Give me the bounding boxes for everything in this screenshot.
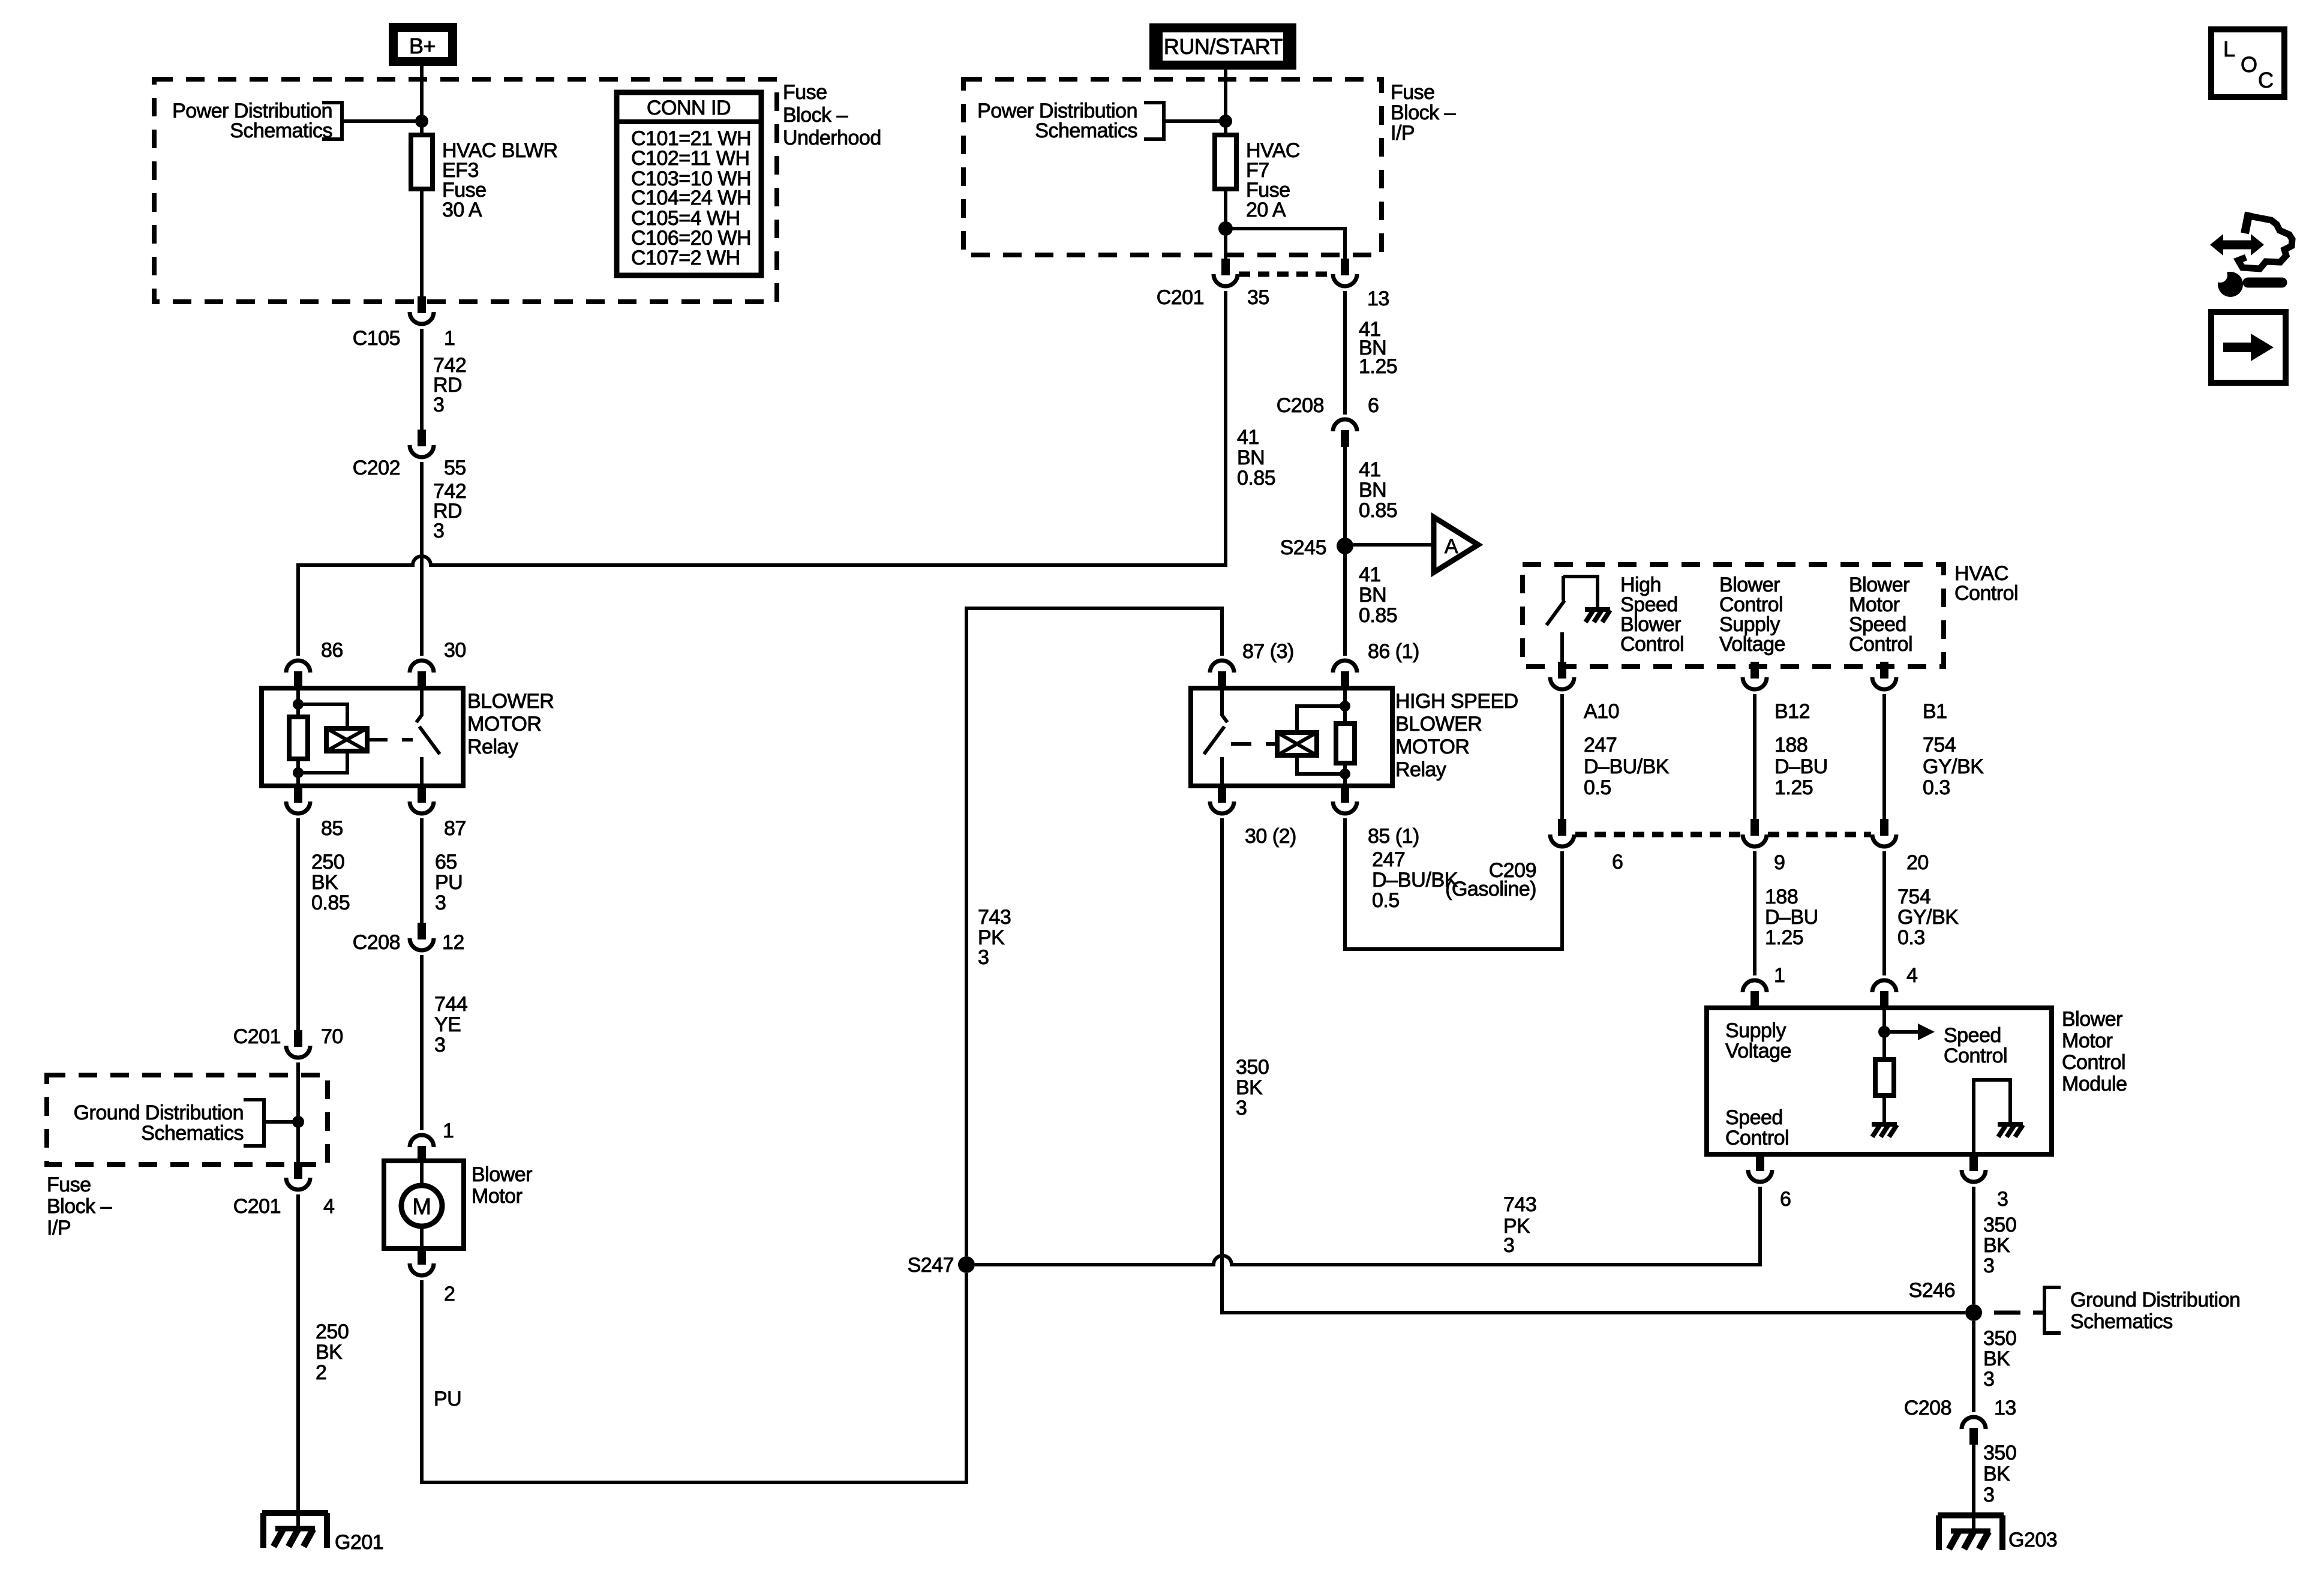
svg-text:1: 1 — [1774, 964, 1785, 987]
svg-text:S246: S246 — [1909, 1279, 1955, 1302]
svg-text:I/P: I/P — [47, 1217, 71, 1239]
svg-text:Relay: Relay — [467, 736, 518, 758]
wire B+ to fuse EF3 — [420, 66, 424, 135]
svg-text:C208: C208 — [1904, 1397, 1951, 1419]
svg-text:30 A: 30 A — [442, 199, 482, 221]
wire 754 GY/BK 0.3 B1 to C209 — [1882, 694, 1886, 819]
svg-text:250: 250 — [311, 851, 344, 873]
svg-text:BLOWER: BLOWER — [467, 690, 554, 713]
junction dot below fuse — [1218, 221, 1233, 236]
svg-text:0.85: 0.85 — [311, 891, 350, 914]
tap wire — [1164, 119, 1226, 123]
high speed relay box — [1191, 688, 1392, 786]
connector C208 pin 6 — [1333, 419, 1357, 447]
motor pin 2 connector — [410, 1248, 434, 1275]
switch — [1222, 688, 1227, 722]
wire 350 BK 3 to G203 — [1972, 1443, 1975, 1531]
svg-text:3: 3 — [1983, 1368, 1994, 1391]
svg-text:PU: PU — [434, 1388, 461, 1410]
wire RUN/START to fuse F7 — [1224, 70, 1227, 135]
wire 250 BK 0.85 — [296, 818, 300, 1030]
svg-text:Control: Control — [1620, 633, 1684, 656]
svg-text:I/P: I/P — [1391, 122, 1415, 145]
svg-text:0.3: 0.3 — [1923, 776, 1950, 799]
svg-text:30: 30 — [444, 639, 466, 662]
svg-text:BN: BN — [1359, 479, 1386, 502]
forward arrow box — [2211, 312, 2286, 383]
svg-text:6: 6 — [1368, 394, 1379, 417]
svg-text:744: 744 — [434, 993, 467, 1016]
svg-text:3: 3 — [435, 891, 446, 914]
svg-text:BK: BK — [1983, 1347, 2010, 1370]
svg-text:BK: BK — [316, 1341, 343, 1364]
wire 65 PU 3 — [420, 818, 424, 923]
coil actuator dashed line — [1231, 742, 1277, 746]
svg-text:1.25: 1.25 — [1359, 355, 1397, 378]
relay pin 87(3) connector — [1210, 661, 1234, 688]
coil actuator dashed line — [367, 738, 413, 742]
svg-text:L: L — [2223, 37, 2235, 61]
svg-text:247: 247 — [1372, 848, 1405, 871]
bracket to B+ wire — [322, 103, 342, 139]
svg-text:87 (3): 87 (3) — [1242, 640, 1294, 663]
svg-text:350: 350 — [1983, 1442, 2016, 1464]
connector C208 pin 12 — [410, 923, 434, 950]
svg-text:YE: YE — [434, 1013, 461, 1036]
car diagnostic icon — [2210, 212, 2292, 297]
svg-text:13: 13 — [1367, 287, 1389, 310]
svg-text:0.85: 0.85 — [1237, 467, 1275, 490]
wire 350 BK 3 from 30(2) to S246 — [1222, 818, 1965, 1313]
svg-text:Module: Module — [2062, 1073, 2127, 1095]
svg-text:30 (2): 30 (2) — [1245, 825, 1296, 848]
svg-text:BK: BK — [311, 871, 338, 894]
module internal ground (right) — [1998, 1124, 2023, 1137]
svg-text:Motor: Motor — [472, 1185, 523, 1208]
svg-text:D–BU: D–BU — [1774, 755, 1828, 778]
LOC box — [2211, 29, 2284, 97]
junction dot — [292, 1116, 304, 1128]
svg-text:Voltage: Voltage — [1725, 1040, 1791, 1062]
svg-text:20: 20 — [1906, 851, 1929, 874]
module internal resistor — [1875, 1059, 1894, 1095]
svg-text:250: 250 — [316, 1320, 349, 1343]
resistor — [289, 717, 308, 759]
relay pin 86(1) connector — [1333, 661, 1357, 688]
svg-text:G203: G203 — [2008, 1529, 2057, 1551]
svg-text:35: 35 — [1247, 286, 1269, 309]
svg-text:Schematics: Schematics — [1035, 119, 1137, 142]
coil parallel links — [298, 704, 347, 728]
relay switch — [416, 688, 422, 722]
wire fuse EF3 to connector C105 — [420, 189, 424, 296]
wire 742 RD 3 — [420, 329, 424, 430]
svg-text:13: 13 — [1994, 1397, 2016, 1419]
svg-text:1: 1 — [443, 1119, 454, 1142]
relay pin 85 connector — [286, 786, 310, 813]
bracket — [244, 1100, 264, 1146]
svg-text:M: M — [412, 1194, 431, 1220]
fuse block underhood dashed box — [154, 79, 777, 302]
svg-text:85: 85 — [321, 817, 343, 840]
svg-text:Blower: Blower — [472, 1163, 532, 1186]
junction dots — [293, 699, 304, 710]
svg-text:3: 3 — [434, 1034, 445, 1056]
connector C209 pin 20 — [1872, 819, 1896, 846]
svg-text:D–BU/BK: D–BU/BK — [1584, 755, 1670, 778]
C201 connector dashed link — [1239, 272, 1333, 277]
svg-text:BLOWER: BLOWER — [1395, 713, 1482, 736]
RUN/START power symbol box — [1149, 23, 1296, 70]
svg-text:87: 87 — [444, 817, 466, 840]
module pin 1 connector — [1743, 980, 1767, 1008]
svg-text:3: 3 — [1997, 1188, 2008, 1211]
junction dot — [1219, 115, 1232, 128]
svg-text:754: 754 — [1897, 885, 1930, 908]
svg-text:B1: B1 — [1923, 700, 1947, 723]
connector C201 pin 13 — [1333, 259, 1357, 286]
svg-text:247: 247 — [1584, 734, 1617, 757]
svg-text:2: 2 — [316, 1361, 326, 1384]
svg-text:Motor: Motor — [2062, 1029, 2113, 1052]
C209 dashed link — [1575, 832, 1871, 837]
fuse F7 — [1215, 135, 1236, 189]
svg-text:3: 3 — [978, 946, 989, 969]
svg-text:BN: BN — [1237, 446, 1265, 469]
svg-text:Control: Control — [1944, 1044, 2007, 1067]
wire 350 BK 3 pin 3 to S246 — [1972, 1187, 1975, 1304]
connector C201 pin 35 — [1214, 259, 1238, 286]
bracket to RUN/START wire — [1144, 103, 1164, 139]
svg-text:Block –: Block – — [1391, 101, 1456, 124]
svg-text:G201: G201 — [335, 1531, 383, 1554]
junction dot on B+ wire — [415, 115, 428, 128]
splice S247 — [958, 1256, 975, 1273]
ground G203 — [1938, 1515, 2004, 1550]
wire through fuse block — [296, 1062, 300, 1162]
svg-text:Ground Distribution: Ground Distribution — [2070, 1289, 2240, 1311]
coil parallel links — [1297, 706, 1345, 733]
svg-text:C201: C201 — [233, 1025, 281, 1048]
pin B12 connector — [1743, 662, 1767, 689]
svg-text:C201: C201 — [233, 1195, 281, 1218]
wire 744 YE 3 — [420, 955, 424, 1130]
wire C201-13 to C208-6 — [1343, 291, 1347, 415]
wire C201-35 down — [1224, 291, 1227, 564]
svg-text:6: 6 — [1612, 851, 1623, 873]
svg-text:3: 3 — [1983, 1254, 1994, 1277]
relay box — [262, 688, 463, 786]
wire fuse F7 down — [1224, 189, 1227, 259]
relay pin 30 connector — [410, 661, 434, 688]
svg-text:Supply: Supply — [1725, 1019, 1786, 1042]
wire 188 D-BU 1.25 to module pin 1 — [1753, 851, 1756, 975]
svg-text:Schematics: Schematics — [141, 1122, 244, 1145]
svg-text:4: 4 — [1906, 964, 1917, 987]
svg-text:Control: Control — [1849, 633, 1912, 656]
callout wire to A triangle — [1353, 543, 1434, 547]
svg-text:70: 70 — [321, 1025, 343, 1048]
svg-text:C104=24 WH: C104=24 WH — [631, 187, 751, 209]
pin A10 connector — [1550, 662, 1574, 689]
svg-text:S245: S245 — [1280, 536, 1326, 559]
long horizontal wire to blower relay coil (hop over B+ wire) — [298, 556, 1226, 656]
wire 247 D-BU/BK 0.5 A10 to C209 — [1560, 694, 1564, 819]
module internal speed control output to ground — [1974, 1080, 2010, 1154]
svg-text:6: 6 — [1780, 1188, 1791, 1211]
svg-text:3: 3 — [1236, 1097, 1247, 1119]
triangle A callout — [1434, 517, 1478, 572]
svg-text:GY/BK: GY/BK — [1897, 906, 1959, 929]
pin B1 connector — [1872, 662, 1896, 689]
svg-text:4: 4 — [323, 1195, 334, 1218]
svg-text:O: O — [2241, 52, 2257, 77]
connector C105 pin 1 — [410, 296, 434, 324]
svg-text:Fuse: Fuse — [783, 81, 827, 104]
wire 754 GY/BK 0.3 to module pin 4 — [1882, 851, 1886, 975]
svg-text:B12: B12 — [1774, 700, 1810, 723]
relay coil box with X — [326, 728, 367, 751]
wire PU to S247 — [422, 1273, 966, 1482]
arrow to Speed Control — [1890, 1030, 1918, 1034]
module internal speed control input — [1882, 1008, 1886, 1059]
svg-text:BN: BN — [1359, 584, 1386, 607]
wire 41 BN 0.85 — [1343, 447, 1347, 656]
svg-text:Voltage: Voltage — [1719, 633, 1785, 656]
svg-text:2: 2 — [444, 1283, 455, 1305]
svg-text:CONN ID: CONN ID — [647, 97, 731, 119]
high speed blower switch — [1562, 576, 1565, 601]
svg-text:C201: C201 — [1157, 286, 1204, 309]
svg-text:86 (1): 86 (1) — [1368, 640, 1419, 663]
svg-text:MOTOR: MOTOR — [467, 713, 541, 736]
svg-text:(Gasoline): (Gasoline) — [1445, 878, 1536, 900]
svg-text:C202: C202 — [353, 457, 400, 479]
relay pin 87 connector — [410, 786, 434, 813]
svg-text:0.85: 0.85 — [1359, 499, 1397, 522]
ground G201 — [262, 1513, 328, 1548]
svg-text:S247: S247 — [908, 1254, 954, 1277]
svg-text:Blower: Blower — [2062, 1008, 2122, 1031]
svg-text:0.5: 0.5 — [1584, 776, 1611, 799]
switch chassis ground — [1585, 610, 1610, 622]
svg-text:1.25: 1.25 — [1774, 776, 1813, 799]
svg-text:188: 188 — [1774, 734, 1807, 757]
fuse block IP dashed box — [963, 79, 1382, 255]
svg-text:Ground Distribution: Ground Distribution — [74, 1101, 244, 1124]
module internal ground (left) — [1872, 1124, 1897, 1137]
svg-text:HIGH SPEED: HIGH SPEED — [1395, 690, 1518, 713]
connector C209 pin 6 — [1550, 819, 1574, 846]
svg-text:743: 743 — [978, 906, 1011, 929]
svg-text:A10: A10 — [1584, 700, 1619, 723]
svg-text:Control: Control — [1725, 1127, 1789, 1149]
wire 188 D-BU 1.25 B12 to C209 — [1753, 694, 1756, 819]
svg-text:C102=11 WH: C102=11 WH — [631, 147, 750, 170]
svg-text:0.5: 0.5 — [1372, 889, 1400, 912]
tap wire — [264, 1120, 298, 1124]
svg-text:743: 743 — [1503, 1193, 1536, 1216]
svg-text:1.25: 1.25 — [1765, 926, 1803, 949]
relay pin 86 connector — [286, 661, 310, 688]
svg-text:85 (1): 85 (1) — [1368, 825, 1419, 848]
svg-text:GY/BK: GY/BK — [1923, 755, 1984, 778]
splice S245 — [1337, 538, 1353, 554]
motor pin 1 connector — [410, 1135, 434, 1163]
svg-text:3: 3 — [433, 520, 444, 542]
svg-text:350: 350 — [1983, 1214, 2016, 1236]
svg-text:BK: BK — [1983, 1234, 2010, 1257]
svg-text:Block –: Block – — [783, 104, 848, 127]
relay pin 85(1) connector — [1333, 786, 1357, 813]
connector C201 pin 4 — [286, 1162, 310, 1190]
svg-text:65: 65 — [435, 851, 457, 873]
coil resistor branch — [1343, 688, 1347, 724]
module pin 6 connector — [1748, 1154, 1772, 1182]
module box — [1707, 1008, 2052, 1154]
motor M circle — [401, 1185, 442, 1226]
svg-text:3: 3 — [1503, 1234, 1514, 1257]
svg-text:BK: BK — [1983, 1463, 2010, 1485]
relay coil box with X — [1277, 733, 1317, 755]
svg-text:Fuse: Fuse — [47, 1173, 91, 1196]
svg-text:Relay: Relay — [1395, 758, 1446, 781]
svg-text:MOTOR: MOTOR — [1395, 736, 1469, 758]
connector C201 pin 70 — [286, 1030, 310, 1058]
svg-text:41: 41 — [1359, 458, 1381, 481]
svg-text:12: 12 — [442, 931, 464, 954]
svg-text:41: 41 — [1237, 426, 1259, 449]
svg-text:188: 188 — [1765, 885, 1798, 908]
svg-text:B+: B+ — [409, 34, 436, 58]
connector C209 pin 9 — [1743, 819, 1767, 846]
module pin 3 connector — [1962, 1154, 1986, 1182]
relay coil resistor branch wire — [296, 688, 300, 717]
wire 350 BK 3 below S246 — [1972, 1321, 1975, 1412]
svg-text:0.3: 0.3 — [1897, 926, 1925, 949]
svg-text:Speed: Speed — [1944, 1024, 2001, 1047]
junction dots — [1340, 701, 1350, 712]
svg-text:3: 3 — [1983, 1484, 1994, 1506]
svg-text:Schematics: Schematics — [2070, 1310, 2173, 1333]
module pin 4 connector — [1872, 980, 1896, 1008]
connector C202 pin 55 — [410, 430, 434, 457]
svg-text:0.85: 0.85 — [1359, 604, 1397, 627]
svg-text:41: 41 — [1359, 563, 1381, 586]
switch common stub — [1560, 632, 1564, 667]
svg-text:Control: Control — [2062, 1051, 2125, 1074]
svg-text:350: 350 — [1983, 1327, 2016, 1350]
svg-text:1: 1 — [444, 327, 455, 350]
svg-text:Schematics: Schematics — [230, 119, 332, 142]
svg-text:Fuse: Fuse — [1391, 81, 1435, 104]
svg-text:RUN/START: RUN/START — [1164, 34, 1283, 59]
svg-text:55: 55 — [444, 457, 466, 479]
svg-text:C107=2 WH: C107=2 WH — [631, 247, 740, 269]
blower motor box — [384, 1161, 464, 1248]
svg-text:D–BU: D–BU — [1765, 906, 1818, 929]
splice S246 — [1965, 1304, 1982, 1321]
svg-text:754: 754 — [1923, 734, 1956, 757]
motor internal wires — [420, 1161, 424, 1248]
wire 247 D-BU/BK 0.5 from 85(1) — [1345, 818, 1562, 949]
svg-text:A: A — [1445, 535, 1458, 558]
svg-text:C: C — [2258, 68, 2274, 92]
svg-text:350: 350 — [1236, 1056, 1269, 1079]
wire 742 RD 3 to relay pin 30 — [420, 462, 424, 656]
svg-text:Block –: Block – — [47, 1195, 112, 1218]
branch wire to C201-13 — [1226, 229, 1345, 259]
bracket — [2044, 1287, 2061, 1333]
HVAC control dashed box — [1523, 565, 1944, 667]
svg-text:9: 9 — [1774, 851, 1785, 874]
ground distribution dashed box — [47, 1075, 328, 1164]
svg-text:Underhood: Underhood — [783, 127, 881, 149]
B+ power symbol box — [389, 23, 457, 66]
svg-text:C208: C208 — [353, 931, 400, 954]
svg-text:86: 86 — [321, 639, 343, 662]
wire 743 PK 3 from pin 6 to S247 (hop over 350 BK wire) — [975, 1187, 1760, 1265]
fuse EF3 — [411, 135, 433, 189]
wire from relay 87(3) up and left down to S247 — [966, 608, 1222, 1256]
tap wire — [342, 119, 422, 123]
svg-text:C105: C105 — [353, 327, 400, 350]
relay pin 30(2) connector — [1210, 786, 1234, 813]
svg-text:PU: PU — [435, 871, 463, 894]
svg-text:C208: C208 — [1277, 394, 1324, 417]
CONN ID table — [617, 92, 761, 275]
connector C208 pin 13 — [1962, 1417, 1986, 1445]
svg-text:Control: Control — [1954, 582, 2018, 605]
svg-text:3: 3 — [433, 394, 444, 416]
wire 250 BK 2 to G201 — [296, 1194, 300, 1529]
svg-text:BK: BK — [1236, 1076, 1263, 1099]
svg-text:Speed: Speed — [1725, 1106, 1783, 1129]
dashed tap to ground distribution — [1994, 1311, 2044, 1315]
svg-text:20 A: 20 A — [1246, 199, 1286, 221]
